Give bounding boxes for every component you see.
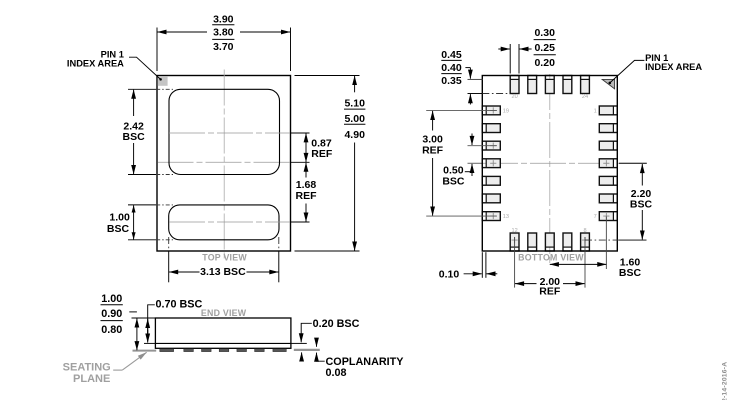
svg-text:BSC: BSC (630, 199, 653, 211)
svg-text:REF: REF (311, 148, 333, 160)
pin 8 pad center mark (582, 237, 588, 243)
top view package body outline (157, 76, 291, 252)
dimension 0.50 BSC pitch (442, 134, 472, 188)
pin 7 (right column pad) (599, 212, 617, 221)
dimension 0.45/0.40/0.35 pad length (441, 49, 470, 105)
pin 12 (bottom row pad) (510, 233, 519, 251)
top view large pad top extension line (2.42 BSC) (128, 88, 156, 90)
dimension 0.20 BSC lead thickness (301, 318, 359, 361)
pin 9 (bottom row pad) (563, 233, 572, 251)
bottom view PIN 1 INDEX AREA callout (610, 53, 703, 83)
pin 4 (right column pad) (599, 159, 617, 168)
pin 11 (bottom row pad) (528, 233, 537, 251)
bottom view vertical centerline (549, 74, 551, 265)
dimension 2.42 BSC pad height (123, 90, 146, 174)
svg-text:BSC: BSC (123, 131, 146, 143)
svg-text:1.00: 1.00 (109, 212, 130, 224)
svg-text:0.25: 0.25 (534, 42, 555, 54)
svg-text:13: 13 (503, 214, 509, 220)
pin 23 (top row pad) (563, 76, 572, 94)
dimension 0.87 REF (306, 133, 333, 162)
svg-text:SEATING: SEATING (63, 362, 111, 374)
pin 16 pad center mark (490, 160, 496, 166)
svg-text:1: 1 (594, 108, 597, 114)
extension line through pin 7 center (1.60 BSC right) (605, 217, 607, 270)
svg-text:BSC: BSC (442, 176, 465, 188)
top view large pad bottom extension line (2.42 BSC) (128, 174, 156, 176)
top view PIN 1 INDEX AREA callout (67, 50, 161, 80)
end view lead 2 (184, 349, 194, 352)
end view shoulder line left extension tick (144, 342, 155, 344)
dimension 1.00 BSC small pad height (107, 205, 134, 239)
end view lead 7 (273, 349, 286, 352)
svg-text:20: 20 (511, 94, 517, 100)
pin 16 (left column pad) (482, 159, 500, 168)
svg-text:0.08: 0.08 (326, 367, 347, 379)
top view small pad bottom extension line (1.00 BSC) (128, 239, 156, 241)
dimension 3.90/3.80/3.70 top width (157, 13, 291, 71)
top view pad right edge extension line (3.13 BSC) (278, 237, 280, 251)
svg-text:4.90: 4.90 (344, 129, 365, 141)
seating plane line (left segment) (133, 350, 157, 352)
end view lead 3 (202, 349, 212, 352)
pin 12 pad center mark (512, 237, 518, 243)
svg-text:PLANE: PLANE (73, 373, 110, 385)
extension line pin bottom row of top pads (0.45/0.40/0.35) (482, 93, 509, 95)
svg-text:0.90: 0.90 (101, 308, 122, 320)
svg-text:COPLANARITY: COPLANARITY (326, 356, 405, 368)
pin 19 pad center mark (490, 107, 496, 113)
extension line top pad step (0.45/0.40/0.35 upper ref) (468, 78, 484, 80)
pin 15 (left column pad) (482, 176, 500, 185)
top view small pad centerline (169, 221, 290, 223)
pin 24 (top row pad) (581, 76, 590, 94)
svg-text:INDEX AREA: INDEX AREA (67, 58, 124, 68)
svg-text:0.45: 0.45 (441, 49, 462, 61)
top view pad left edge extension line (3.13 BSC) (168, 237, 170, 251)
pin 19 (left column pad) (482, 106, 500, 115)
pin 18 (left column pad) (482, 124, 500, 133)
top view horizontal centerline (158, 161, 291, 163)
end view lead 5 (237, 349, 247, 352)
pin 17 (left column pad) (482, 141, 500, 150)
seating plane line (right segment) (294, 349, 320, 351)
top view reference centerline 0.87 above center (169, 132, 290, 134)
extension line through pin 8 center (2.00 REF right) (584, 237, 586, 288)
pin 13 pad center mark (490, 213, 496, 219)
svg-text:1.68: 1.68 (296, 179, 317, 191)
svg-text:0.80: 0.80 (101, 324, 122, 336)
extension line through pin 17 center (0.50 BSC) (468, 145, 497, 147)
dimension 5.10/5.00/4.90 right height (295, 76, 366, 252)
svg-text:BSC: BSC (107, 223, 130, 235)
svg-text:REF: REF (422, 145, 444, 157)
svg-text:3.00: 3.00 (422, 133, 443, 145)
dimension 1.60 BSC (550, 257, 642, 280)
dimension 0.70 BSC body height (148, 299, 203, 343)
top view pin 1 index dot (159, 78, 162, 81)
top view vertical centerline (223, 70, 225, 260)
top view secondary pad (small) (169, 205, 279, 240)
end view lead shoulder line (155, 342, 291, 344)
svg-text:0.70 BSC: 0.70 BSC (156, 299, 203, 311)
svg-text:19: 19 (503, 108, 509, 114)
bottom view pin 1 index chamfer triangle (602, 79, 614, 89)
dimension COPLANARITY 0.08 (317, 339, 405, 380)
svg-text:0.30: 0.30 (534, 27, 555, 39)
bottom view pin 1 index dot (609, 82, 612, 85)
svg-text:0.35: 0.35 (441, 75, 462, 87)
svg-text:BSC: BSC (619, 267, 642, 279)
pin 6 (right column pad) (599, 194, 617, 203)
svg-text:8: 8 (583, 228, 586, 234)
svg-text:REF: REF (296, 190, 318, 202)
bottom view package body outline (482, 76, 617, 252)
top view small pad top extension line (1.00 BSC) (128, 204, 156, 206)
svg-text:02-14-2016-A: 02-14-2016-A (721, 362, 728, 400)
dimension 3.00 REF (422, 111, 444, 216)
pin 21 (top row pad) (528, 76, 537, 94)
end view package body outline (155, 318, 291, 348)
pin 14 (left column pad) (482, 194, 500, 203)
svg-text:5.10: 5.10 (344, 97, 365, 109)
SEATING PLANE callout (63, 352, 147, 385)
end view lead 4 (219, 349, 229, 352)
svg-text:REF: REF (539, 286, 561, 298)
svg-text:3.80: 3.80 (213, 27, 234, 39)
extension line through pin 19 center (3.00 REF top) (426, 109, 497, 111)
dimension 1.00/0.90/0.80 package height (101, 293, 137, 350)
extension line through pin 12 center (2.00 REF left) (514, 237, 516, 288)
svg-text:1.00: 1.00 (101, 293, 122, 305)
dimension 0.30/0.25/0.20 pad width (498, 27, 556, 74)
pin 8 (bottom row pad) (581, 233, 590, 251)
pin 5 (right column pad) (599, 176, 617, 185)
dimension 2.00 REF (515, 276, 585, 298)
end view lead 1 (160, 349, 174, 352)
pin 20 (top row pad) (510, 76, 519, 94)
pin 3 (right column pad) (599, 141, 617, 150)
pin 17 pad center mark (490, 143, 496, 149)
end view lead 6 (255, 349, 265, 352)
pin 4 pad center mark (603, 160, 609, 166)
dimension 2.20 BSC (630, 164, 653, 240)
svg-text:5.00: 5.00 (344, 113, 365, 125)
dimension 3.13 BSC (169, 266, 278, 278)
pin 13 (left column pad) (482, 212, 500, 221)
svg-text:24: 24 (582, 94, 588, 100)
end view top edge extension line (132, 317, 156, 319)
dimension 1.68 REF (296, 163, 318, 222)
svg-text:0.10: 0.10 (439, 268, 460, 280)
svg-text:3.90: 3.90 (213, 13, 234, 25)
svg-text:7: 7 (594, 214, 597, 220)
svg-text:BOTTOM VIEW: BOTTOM VIEW (518, 253, 584, 263)
bottom view horizontal centerline (482, 162, 619, 164)
svg-text:0.20 BSC: 0.20 BSC (313, 318, 360, 330)
svg-text:INDEX AREA: INDEX AREA (645, 62, 702, 72)
svg-text:0.40: 0.40 (441, 62, 462, 74)
extension line bottom pad centers (2.20 BSC bottom ref) (585, 239, 619, 241)
pin 2 (right column pad) (599, 124, 617, 133)
extension line through pin 13 center (3.00 REF bottom) (426, 215, 497, 217)
end view shoulder line right extension tick (291, 342, 307, 344)
pin 1 (right column pad) (599, 106, 617, 115)
top view pin 1 index area corner pad (158, 76, 168, 86)
svg-text:3.70: 3.70 (213, 41, 234, 53)
svg-text:0.20: 0.20 (534, 57, 555, 69)
svg-text:END VIEW: END VIEW (201, 308, 247, 318)
pin 22 (top row pad) (545, 76, 554, 94)
svg-text:12: 12 (511, 228, 517, 234)
top view exposed pad (large) (169, 89, 280, 174)
svg-text:TOP VIEW: TOP VIEW (202, 252, 247, 262)
pin 10 (bottom row pad) (545, 233, 554, 251)
svg-text:3.13 BSC: 3.13 BSC (200, 266, 246, 278)
pin 7 pad center mark (603, 213, 609, 219)
dimension 0.10 pad pull-back (439, 252, 498, 280)
